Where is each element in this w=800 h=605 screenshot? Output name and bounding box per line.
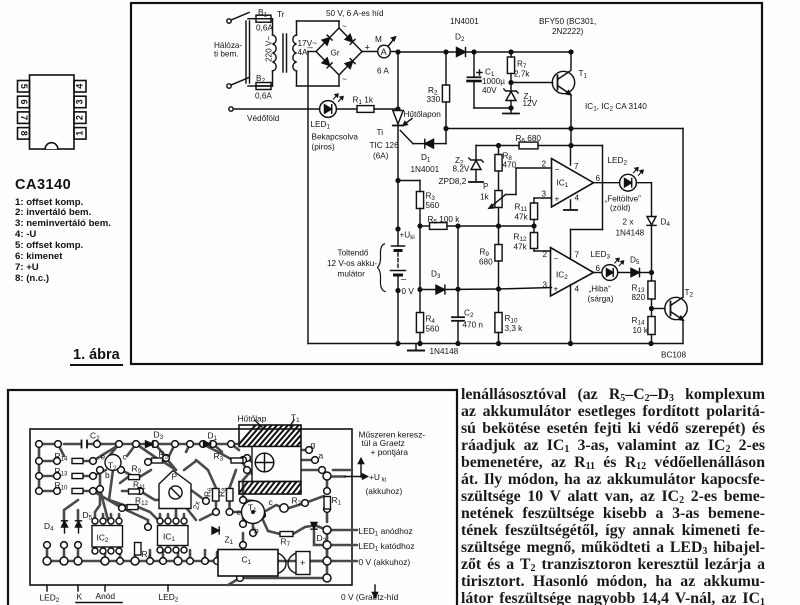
svg-text:D5: D5: [630, 256, 640, 267]
svg-text:B1: B1: [258, 8, 267, 19]
svg-text:LED2: LED2: [40, 593, 60, 605]
svg-text:Ti: Ti: [377, 128, 384, 137]
svg-text:LED1 anódhoz: LED1 anódhoz: [359, 526, 413, 538]
svg-text:T1: T1: [291, 413, 300, 425]
svg-text:470 n: 470 n: [463, 321, 484, 330]
svg-text:0 V: 0 V: [402, 287, 415, 296]
svg-text:R13: R13: [55, 466, 69, 478]
svg-text:LED2: LED2: [159, 592, 179, 604]
svg-text:−: −: [555, 165, 560, 174]
svg-text:+ pontjára: + pontjára: [371, 447, 409, 457]
svg-text:Toltendő: Toltendő: [338, 249, 369, 258]
svg-text:47k: 47k: [515, 213, 529, 222]
svg-text:R9: R9: [132, 464, 142, 476]
svg-text:R5: R5: [159, 449, 169, 461]
svg-text:3: 3: [542, 190, 547, 199]
svg-text:c: c: [269, 497, 273, 507]
svg-text:b: b: [105, 470, 110, 480]
svg-text:6: 6: [596, 264, 601, 273]
svg-text:(zöld): (zöld): [610, 204, 631, 213]
svg-text:b: b: [254, 526, 259, 536]
svg-text:D1: D1: [208, 431, 218, 443]
svg-text:D2: D2: [317, 533, 327, 545]
svg-text:7: 7: [19, 115, 29, 120]
svg-text:~: ~: [342, 75, 347, 84]
svg-text:R7: R7: [281, 537, 291, 549]
svg-text:B2: B2: [256, 74, 265, 85]
svg-text:R2: R2: [292, 496, 302, 508]
svg-text:R10: R10: [505, 314, 518, 325]
svg-text:330: 330: [427, 95, 441, 104]
svg-text:+: +: [555, 195, 560, 204]
svg-text:1N4148: 1N4148: [616, 229, 645, 238]
svg-text:Hűtőlap: Hűtőlap: [238, 414, 267, 424]
svg-text:3: 3: [75, 99, 85, 104]
svg-text:4: 4: [575, 285, 580, 294]
svg-text:e: e: [101, 452, 106, 462]
svg-text:12V: 12V: [523, 99, 538, 108]
svg-text:R11: R11: [133, 480, 146, 492]
svg-text:C2: C2: [90, 431, 100, 443]
svg-text:1N4001: 1N4001: [411, 165, 440, 174]
svg-text:4: 4: [575, 194, 580, 203]
svg-text:2: 2: [543, 250, 548, 259]
svg-text:mulátor: mulátor: [338, 270, 366, 279]
svg-text:+: +: [300, 558, 305, 568]
svg-text:C2: C2: [464, 309, 474, 320]
svg-text:10 k: 10 k: [633, 326, 649, 335]
svg-text:220 V~: 220 V~: [265, 36, 274, 62]
svg-text:„Hiba“: „Hiba“: [589, 285, 612, 294]
svg-text:P: P: [172, 472, 178, 482]
svg-text:3: 3: [543, 281, 548, 290]
svg-text:6: 6: [19, 99, 29, 104]
svg-text:LED1 katódhoz: LED1 katódhoz: [359, 541, 415, 553]
svg-text:R7: R7: [517, 60, 527, 71]
svg-text:e: e: [237, 507, 242, 517]
svg-text:0 V (akkuhoz): 0 V (akkuhoz): [359, 557, 411, 567]
svg-text:K: K: [77, 592, 83, 602]
svg-text:~: ~: [342, 22, 347, 31]
svg-text:R6 680: R6 680: [516, 134, 542, 145]
svg-text:IC1, IC2 CA 3140: IC1, IC2 CA 3140: [585, 102, 647, 113]
svg-text:2N2222): 2N2222): [552, 27, 584, 36]
svg-text:c: c: [123, 452, 127, 462]
svg-text:T2: T2: [685, 288, 694, 299]
svg-text:D4: D4: [661, 218, 671, 229]
svg-text:R12: R12: [135, 496, 149, 508]
svg-text:0 V (Graetz-híd: 0 V (Graetz-híd: [341, 592, 399, 602]
svg-text:820: 820: [632, 293, 646, 302]
svg-text:7: 7: [575, 251, 580, 260]
svg-text:Bekapcsolva: Bekapcsolva: [312, 133, 359, 142]
svg-text:R4: R4: [426, 315, 436, 326]
svg-text:6: 6: [596, 174, 601, 183]
svg-text:A: A: [381, 47, 387, 57]
svg-text:560: 560: [426, 325, 440, 334]
svg-text:Védőföld: Védőföld: [247, 114, 280, 123]
svg-text:Tr: Tr: [277, 10, 285, 19]
svg-text:1N4148: 1N4148: [430, 347, 459, 356]
svg-text:1k: 1k: [480, 193, 490, 202]
svg-text:2: 2: [75, 115, 85, 120]
svg-text:8,2V: 8,2V: [453, 165, 470, 174]
svg-text:2: 2: [542, 160, 547, 169]
svg-text:+: +: [365, 43, 371, 54]
svg-text:IC1: IC1: [557, 179, 569, 190]
svg-text:D3: D3: [154, 430, 164, 442]
svg-text:LED3: LED3: [591, 250, 611, 261]
svg-text:680: 680: [479, 258, 493, 267]
svg-text:−: −: [554, 255, 559, 264]
svg-text:R1: R1: [332, 495, 342, 507]
svg-text:Gr: Gr: [331, 49, 340, 58]
svg-text:g: g: [311, 440, 316, 450]
svg-text:0,6A: 0,6A: [255, 92, 272, 101]
svg-text:„Feltöltve”: „Feltöltve”: [605, 195, 642, 204]
svg-text:50 V, 6 A-es híd: 50 V, 6 A-es híd: [326, 9, 384, 18]
svg-text:+: +: [554, 285, 559, 294]
svg-text:Z1: Z1: [225, 535, 234, 547]
svg-text:5: 5: [19, 84, 29, 89]
svg-text:ti bem.: ti bem.: [214, 50, 239, 59]
svg-text:470: 470: [503, 161, 517, 170]
svg-text:1000µ: 1000µ: [482, 77, 505, 86]
svg-text:12 V-os akku-: 12 V-os akku-: [327, 259, 377, 268]
svg-text:a: a: [319, 451, 324, 461]
svg-text:1N4001: 1N4001: [450, 17, 479, 26]
svg-text:Hűtőlapon: Hűtőlapon: [404, 110, 442, 119]
svg-text:+Uki: +Uki: [400, 231, 415, 242]
svg-text:47k: 47k: [514, 243, 528, 252]
svg-text:R5 100 k: R5 100 k: [428, 215, 461, 226]
svg-text:R1 1k: R1 1k: [353, 96, 374, 107]
svg-text:1: 1: [75, 131, 85, 136]
svg-text:LED1: LED1: [311, 120, 331, 131]
svg-text:(piros): (piros): [312, 143, 335, 152]
svg-text:R10: R10: [55, 480, 69, 492]
svg-text:40V: 40V: [482, 86, 497, 95]
svg-text:M: M: [375, 35, 382, 44]
svg-text:R12: R12: [514, 233, 527, 244]
svg-text:(6A): (6A): [373, 152, 389, 161]
svg-text:2 x: 2 x: [623, 218, 634, 227]
svg-text:–: –: [308, 42, 314, 53]
svg-text:Anód: Anód: [96, 591, 116, 601]
svg-text:IC2: IC2: [556, 271, 568, 282]
svg-text:P: P: [483, 182, 489, 191]
svg-text:0,6A: 0,6A: [256, 24, 273, 33]
svg-text:2x: 2x: [191, 500, 202, 510]
svg-text:BFY50 (BC301,: BFY50 (BC301,: [539, 17, 596, 26]
svg-text:D2: D2: [455, 33, 465, 44]
svg-text:3,3 k: 3,3 k: [505, 324, 524, 333]
svg-text:8: 8: [19, 131, 29, 136]
svg-text:R14: R14: [632, 316, 645, 327]
svg-text:6 A: 6 A: [377, 67, 389, 76]
svg-text:T1: T1: [579, 69, 588, 80]
svg-text:BC108: BC108: [661, 351, 686, 360]
svg-text:D5: D5: [83, 510, 93, 522]
svg-text:560: 560: [426, 201, 440, 210]
svg-text:2,7k: 2,7k: [514, 70, 530, 79]
svg-text:D1: D1: [421, 153, 431, 164]
svg-text:(akkuhoz): (akkuhoz): [366, 486, 403, 496]
svg-text:R9: R9: [480, 248, 490, 259]
svg-text:4: 4: [75, 84, 85, 89]
svg-text:D3: D3: [431, 270, 441, 281]
svg-text:LED2: LED2: [608, 156, 628, 167]
svg-text:+U ki: +U ki: [369, 472, 386, 484]
svg-text:D4: D4: [44, 521, 54, 533]
svg-text:4A: 4A: [298, 48, 309, 57]
svg-text:TIC 126: TIC 126: [370, 141, 400, 150]
svg-text:(sárga): (sárga): [588, 295, 614, 304]
svg-text:ZPD8,2: ZPD8,2: [439, 177, 467, 186]
svg-text:R11: R11: [515, 203, 528, 214]
svg-text:R6: R6: [203, 487, 215, 497]
svg-text:–: –: [401, 274, 407, 285]
svg-text:7: 7: [574, 162, 579, 171]
